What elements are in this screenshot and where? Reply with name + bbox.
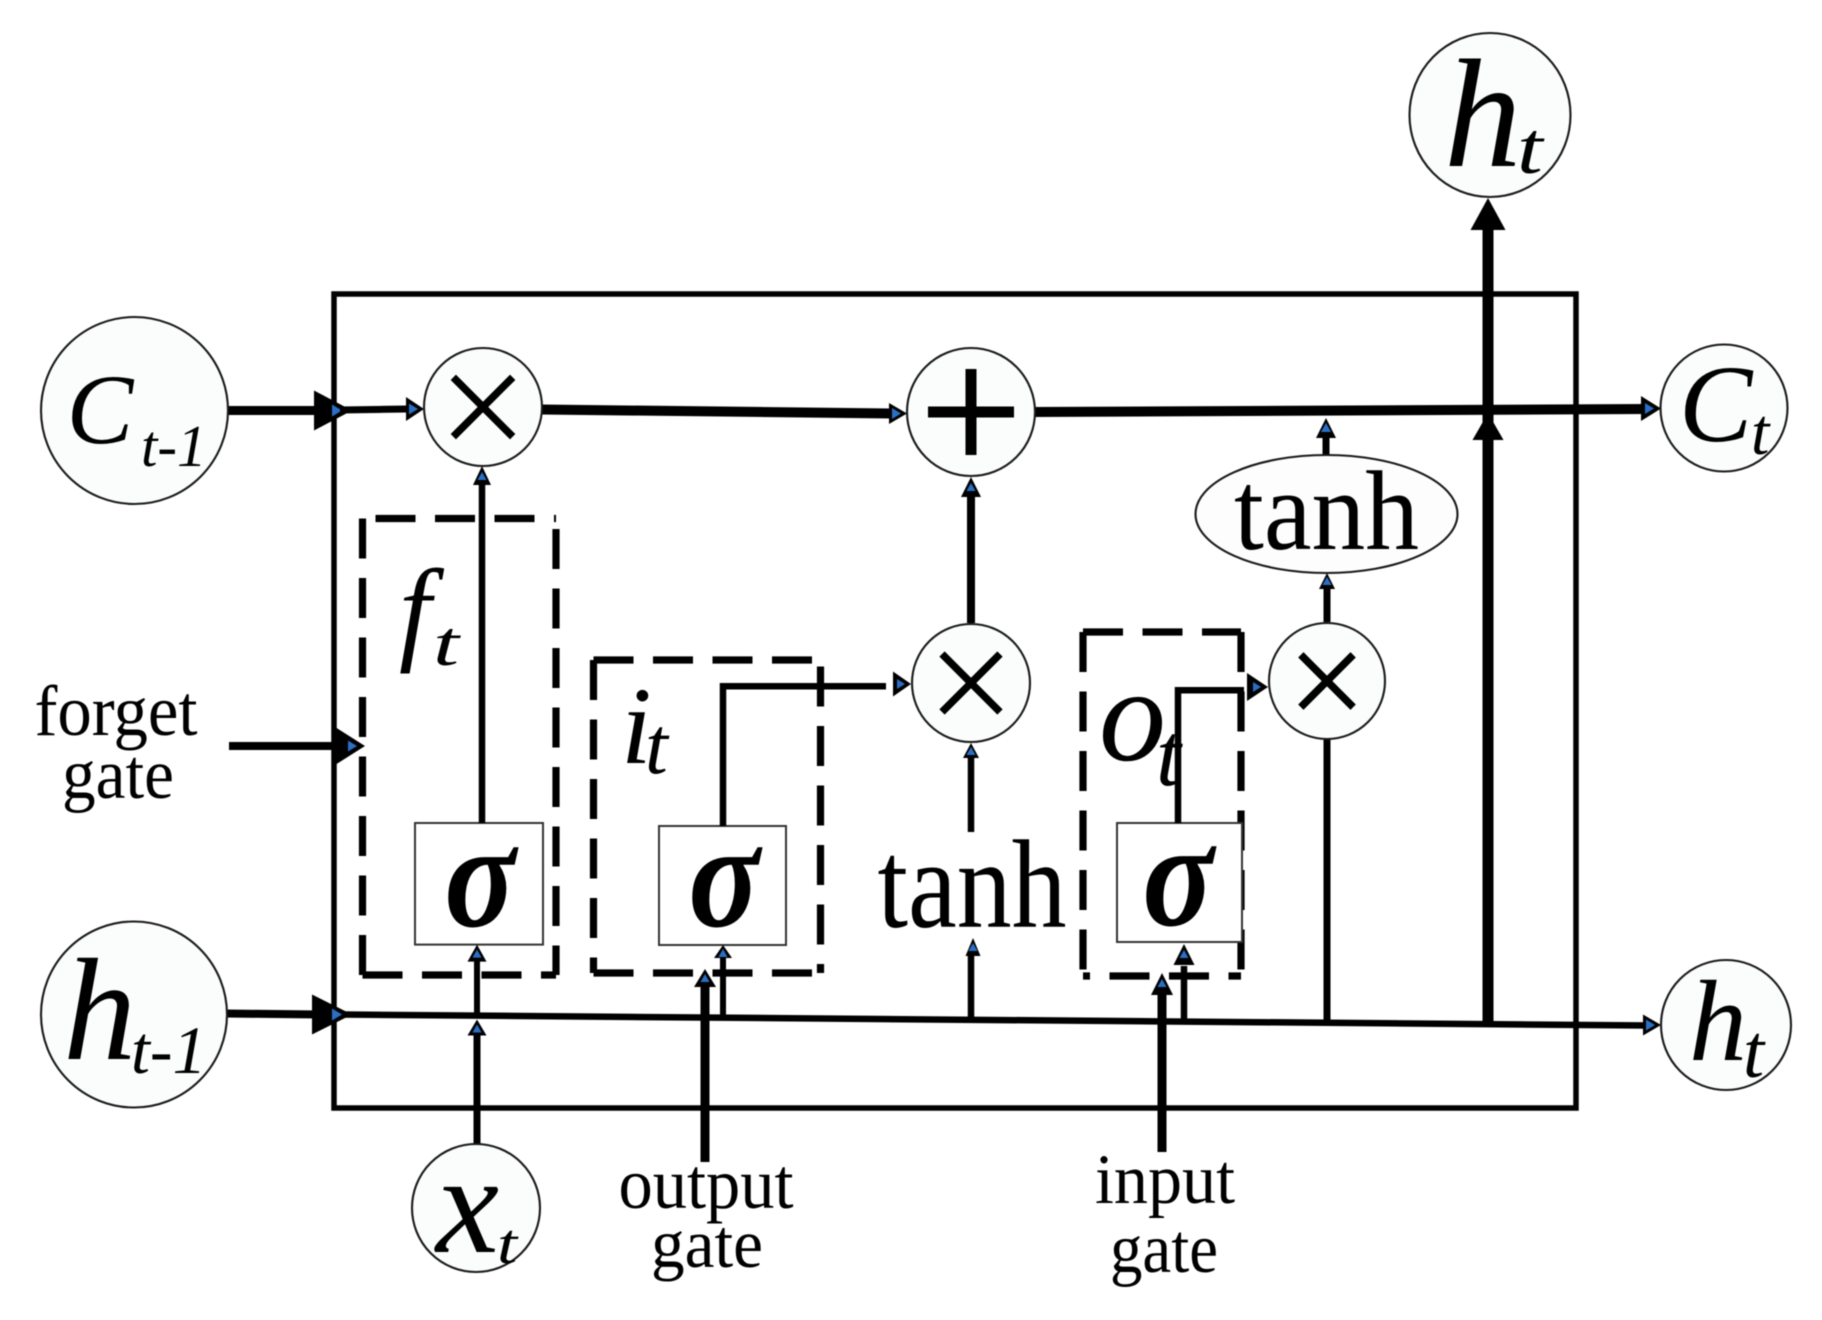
svg-text:t: t (433, 608, 462, 679)
svg-text:σ: σ (1143, 792, 1218, 958)
svg-text:C: C (1679, 343, 1754, 465)
svg-text:x: x (434, 1125, 499, 1283)
svg-text:tanh: tanh (1234, 449, 1419, 574)
svg-text:σ: σ (689, 793, 764, 959)
svg-text:t-1: t-1 (131, 1012, 207, 1088)
svg-text:t: t (645, 700, 670, 791)
svg-text:input: input (1095, 1141, 1235, 1219)
svg-text:h: h (1444, 28, 1522, 200)
svg-text:t: t (1156, 706, 1183, 805)
svg-text:gate: gate (1110, 1211, 1218, 1288)
svg-text:h: h (63, 929, 136, 1091)
svg-text:t: t (497, 1213, 519, 1276)
svg-text:gate: gate (651, 1206, 763, 1282)
svg-text:t: t (1517, 108, 1545, 190)
svg-text:C: C (67, 354, 135, 465)
svg-text:tanh: tanh (878, 816, 1067, 955)
svg-text:σ: σ (445, 793, 520, 959)
svg-text:h: h (1689, 958, 1747, 1086)
svg-text:t: t (1743, 1010, 1766, 1094)
svg-text:t: t (1751, 396, 1771, 469)
svg-text:t-1: t-1 (141, 413, 207, 479)
svg-text:gate: gate (62, 736, 174, 814)
